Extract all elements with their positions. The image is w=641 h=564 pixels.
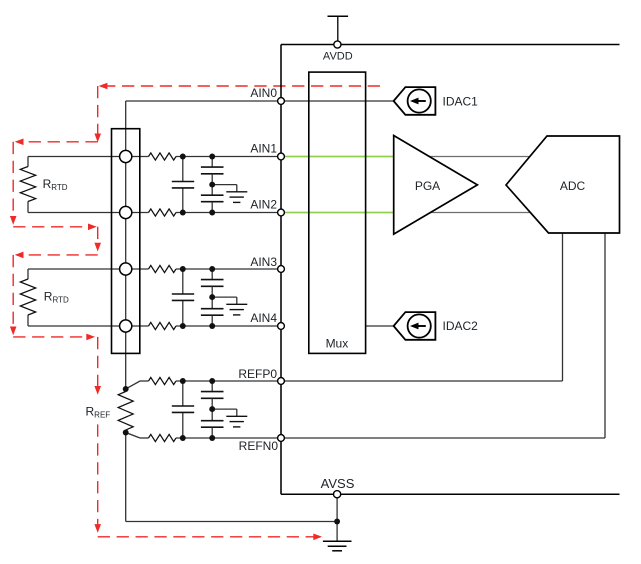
svg-text:IDAC2: IDAC2 xyxy=(443,319,479,333)
svg-text:AIN1: AIN1 xyxy=(250,141,277,155)
svg-text:Mux: Mux xyxy=(326,337,349,351)
svg-text:AIN4: AIN4 xyxy=(250,311,277,325)
svg-text:IDAC1: IDAC1 xyxy=(443,94,479,108)
svg-text:AVSS: AVSS xyxy=(321,476,355,491)
svg-text:AIN2: AIN2 xyxy=(250,198,277,212)
svg-text:REFN0: REFN0 xyxy=(239,439,279,453)
svg-text:ADC: ADC xyxy=(560,179,586,193)
svg-text:AVDD: AVDD xyxy=(323,51,353,63)
svg-text:PGA: PGA xyxy=(415,179,440,193)
svg-text:REFP0: REFP0 xyxy=(238,367,277,381)
svg-text:AIN3: AIN3 xyxy=(250,255,277,269)
svg-text:AIN0: AIN0 xyxy=(250,86,277,100)
